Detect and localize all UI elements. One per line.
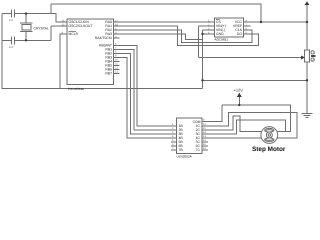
svg-text:DO: DO bbox=[237, 32, 242, 36]
svg-text:13: 13 bbox=[203, 135, 206, 138]
svg-text:Step Motor: Step Motor bbox=[252, 146, 286, 153]
svg-text:PIC16F84A: PIC16F84A bbox=[68, 87, 85, 91]
svg-text:10: 10 bbox=[203, 147, 206, 150]
svg-text:ULN2003A: ULN2003A bbox=[177, 155, 193, 159]
svg-text:12: 12 bbox=[203, 139, 206, 142]
svg-text:7: 7 bbox=[172, 147, 174, 150]
svg-text:1nF: 1nF bbox=[9, 19, 14, 22]
svg-text:ADC0831: ADC0831 bbox=[215, 38, 229, 42]
svg-text:7C: 7C bbox=[196, 148, 201, 152]
svg-text:+12V: +12V bbox=[234, 88, 244, 93]
svg-text:11: 11 bbox=[203, 143, 206, 146]
svg-text:6: 6 bbox=[172, 143, 174, 146]
svg-text:RB7: RB7 bbox=[105, 72, 112, 76]
svg-text:1: 1 bbox=[172, 123, 174, 126]
svg-text:14: 14 bbox=[203, 131, 206, 134]
svg-text:GND: GND bbox=[216, 32, 224, 36]
svg-text:3: 3 bbox=[172, 131, 174, 134]
svg-text:4: 4 bbox=[172, 135, 174, 138]
svg-text:5: 5 bbox=[172, 139, 174, 142]
svg-text:15: 15 bbox=[203, 127, 206, 130]
svg-text:RA4/T0CKI: RA4/T0CKI bbox=[95, 36, 112, 40]
svg-text:MCLR: MCLR bbox=[69, 32, 79, 36]
svg-text:1nF: 1nF bbox=[9, 46, 14, 49]
svg-text:8: 8 bbox=[203, 118, 205, 121]
svg-text:COM: COM bbox=[193, 120, 201, 124]
svg-text:2: 2 bbox=[172, 127, 174, 130]
svg-text:16: 16 bbox=[203, 123, 206, 126]
svg-text:OSC2/CLKOUT: OSC2/CLKOUT bbox=[69, 24, 93, 28]
svg-text:CRYSTAL: CRYSTAL bbox=[34, 26, 49, 30]
svg-text:7B: 7B bbox=[179, 148, 184, 152]
